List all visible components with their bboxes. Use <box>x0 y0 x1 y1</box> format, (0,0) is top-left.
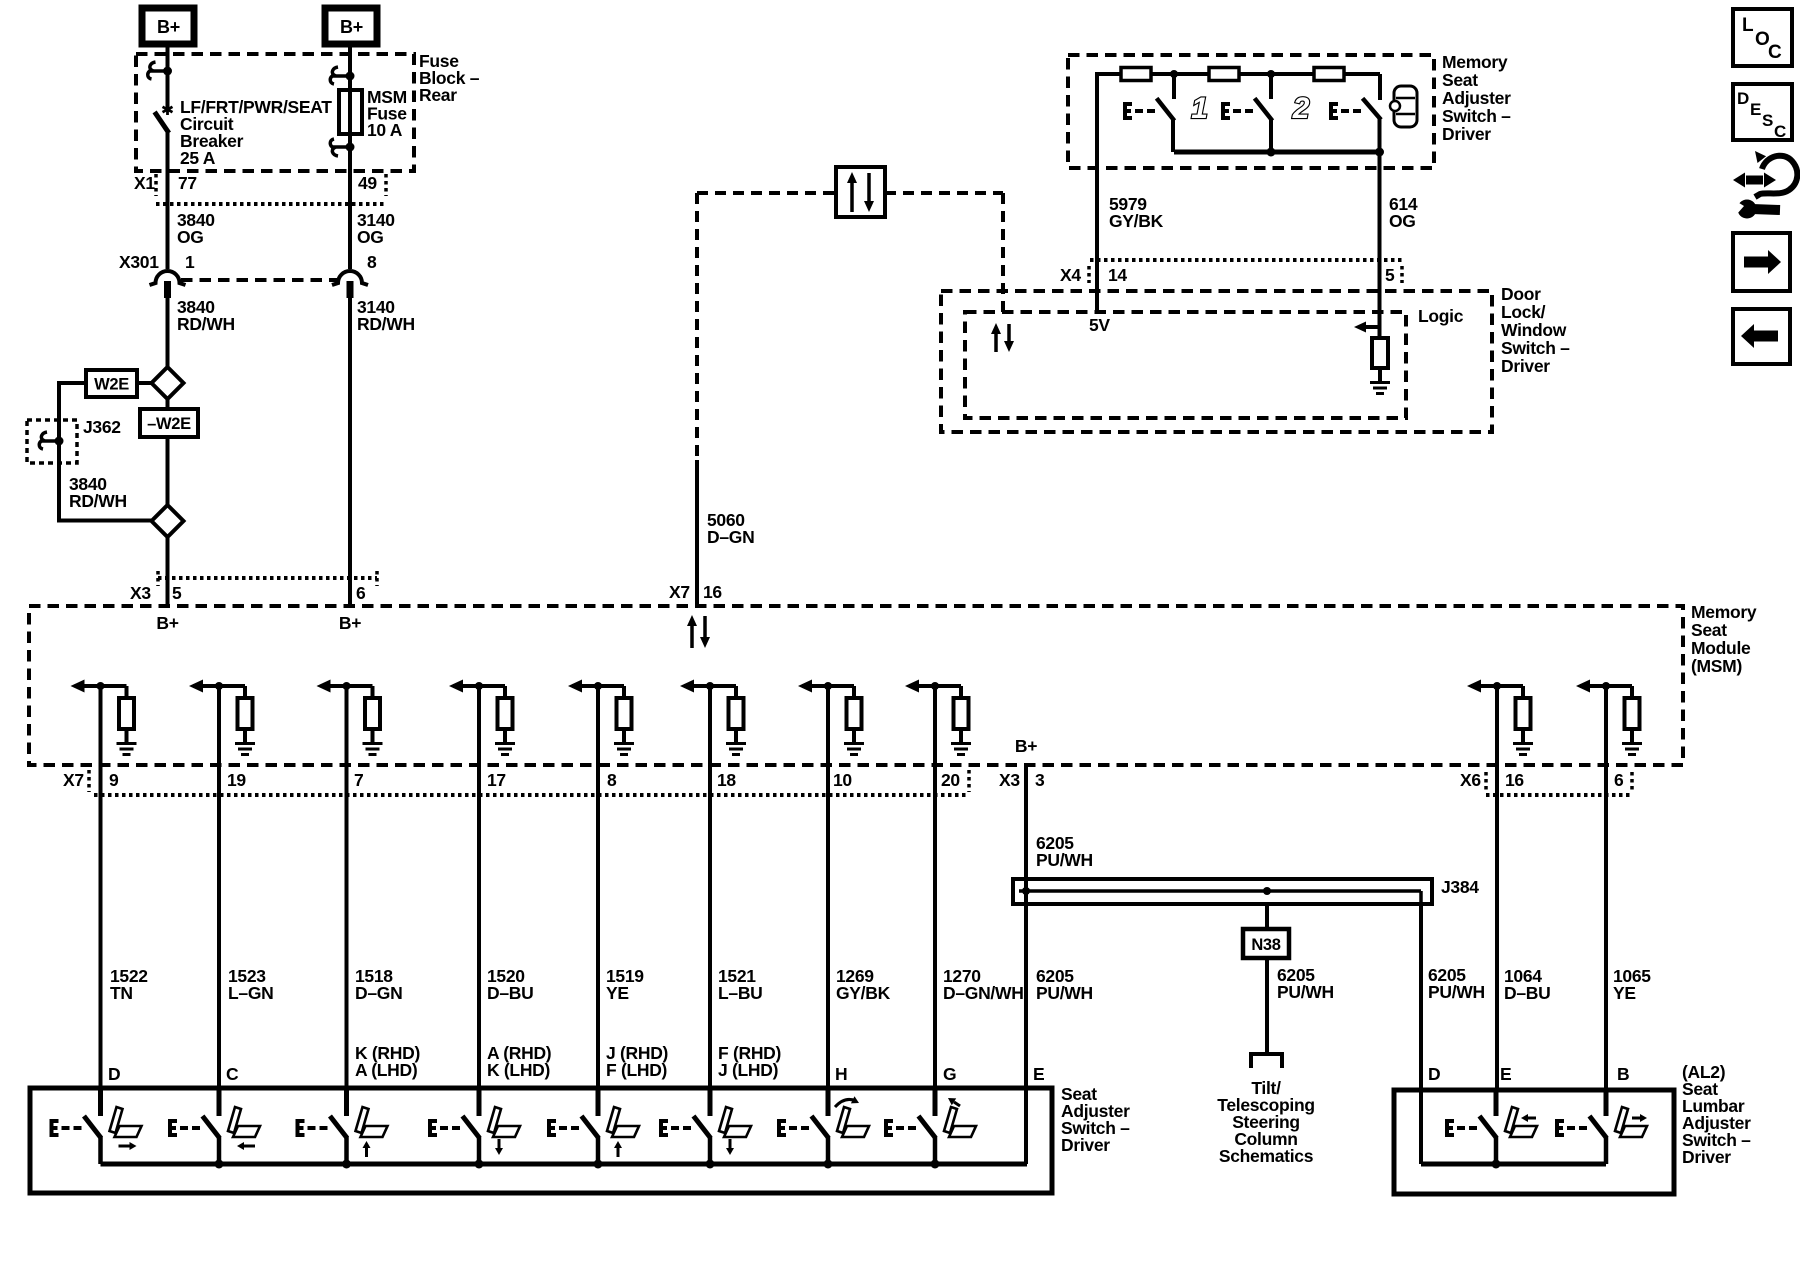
inline connector hook (fuse bottom) <box>331 145 350 149</box>
splice diamond (bottom) <box>152 505 184 537</box>
svg-text:X3: X3 <box>130 583 151 603</box>
svg-text:Switch –: Switch – <box>1442 106 1511 126</box>
svg-text:6: 6 <box>356 583 366 603</box>
seat switch unit 5 <box>596 1090 601 1116</box>
LOC nav icon <box>1733 9 1792 66</box>
svg-text:PU/WH: PU/WH <box>1036 850 1093 870</box>
MSM driver output, pin wire x=479 <box>453 684 505 688</box>
svg-text:D–GN: D–GN <box>707 527 754 547</box>
svg-text:F (LHD): F (LHD) <box>606 1060 667 1080</box>
updown arrows (logic in) <box>994 332 998 352</box>
svg-text:Schematics: Schematics <box>1219 1146 1314 1166</box>
memory switch 3 (set) <box>1329 102 1338 120</box>
MSM driver output, pin wire x=710 <box>684 684 736 688</box>
svg-text:6: 6 <box>1614 770 1624 790</box>
svg-text:D–BU: D–BU <box>1504 983 1550 1003</box>
seat switch unit 1 <box>98 1090 103 1116</box>
seat switch unit 4 <box>477 1090 482 1116</box>
inline connector hook (breaker top) <box>149 69 168 73</box>
svg-text:Module: Module <box>1691 638 1751 658</box>
svg-text:PU/WH: PU/WH <box>1277 982 1334 1002</box>
svg-text:W2E: W2E <box>94 376 129 394</box>
svg-text:PU/WH: PU/WH <box>1428 982 1485 1002</box>
svg-text:Driver: Driver <box>1442 124 1491 144</box>
dashed wire down-left <box>695 193 699 460</box>
svg-text:Logic: Logic <box>1418 306 1464 326</box>
svg-text:RD/WH: RD/WH <box>69 491 127 511</box>
svg-text:K (LHD): K (LHD) <box>487 1060 550 1080</box>
DESC nav icon <box>1733 84 1792 140</box>
Memory Seat Module (MSM) dashed box <box>29 606 1683 765</box>
right arrow nav icon <box>1733 233 1790 291</box>
svg-text:C: C <box>226 1064 239 1084</box>
svg-text:D–GN/WH: D–GN/WH <box>943 983 1024 1003</box>
svg-text:10 A: 10 A <box>367 120 403 140</box>
wire D inside lumbar <box>1419 1090 1423 1164</box>
MSM driver output, pin wire x=219 <box>193 684 245 688</box>
MSM Fuse 10 A <box>339 90 362 134</box>
wire from MSM pin <box>477 686 481 765</box>
ground (logic) <box>1370 381 1390 384</box>
connector X4 row <box>1090 258 1404 262</box>
car icon <box>1394 86 1417 127</box>
svg-text:D: D <box>108 1064 120 1084</box>
svg-text:G: G <box>943 1064 956 1084</box>
wire to N38 <box>1265 904 1269 929</box>
svg-text:A (LHD): A (LHD) <box>355 1060 417 1080</box>
svg-text:GY/BK: GY/BK <box>1109 211 1164 231</box>
updown arrows (MSM X7-16) <box>690 624 694 648</box>
wire MSM pin to seat switch x=828 <box>826 765 830 1090</box>
wire 6205 pin E to bus <box>1024 1090 1028 1164</box>
Seat Adjuster Switch - Driver box <box>30 1088 1052 1193</box>
svg-text:B: B <box>1617 1064 1629 1084</box>
svg-text:E: E <box>1750 100 1761 119</box>
lumbar switch 2 <box>1604 1090 1609 1116</box>
svg-text:TN: TN <box>110 983 133 1003</box>
svg-text:25 A: 25 A <box>180 148 216 168</box>
svg-text:8: 8 <box>367 252 377 272</box>
svg-text:7: 7 <box>354 770 363 790</box>
svg-text:19: 19 <box>227 770 246 790</box>
svg-text:X3: X3 <box>999 770 1020 790</box>
svg-text:(MSM): (MSM) <box>1691 656 1742 676</box>
wire X6-16 to lumbar E <box>1495 765 1499 1090</box>
svg-text:OG: OG <box>1389 211 1416 231</box>
wire 614 into switch <box>1378 168 1382 338</box>
svg-text:Seat: Seat <box>1442 70 1478 90</box>
seat switch unit 2 <box>217 1090 222 1116</box>
memory switch 2 <box>1221 102 1230 120</box>
svg-text:Window: Window <box>1501 320 1567 340</box>
dashed wire to door switch <box>697 191 836 195</box>
internal bus with resistors <box>1097 72 1121 76</box>
wire MSM pin to seat switch x=710 <box>708 765 712 1090</box>
svg-text:C: C <box>1768 42 1782 63</box>
Memory Seat Adjuster Switch - Driver dashed box <box>1068 55 1434 168</box>
wire W2E to diamond <box>137 381 152 385</box>
svg-text:H: H <box>835 1064 847 1084</box>
svg-text:Seat: Seat <box>1691 620 1727 640</box>
svg-text:77: 77 <box>178 173 197 193</box>
svg-text:Lock/: Lock/ <box>1501 302 1546 322</box>
wire from MSM pin <box>708 686 712 765</box>
svg-text:Switch –: Switch – <box>1501 338 1570 358</box>
svg-text:GY/BK: GY/BK <box>836 983 891 1003</box>
Fuse Block - Rear dashed box <box>136 54 414 171</box>
svg-text:L–GN: L–GN <box>228 983 273 1003</box>
svg-text:D–GN: D–GN <box>355 983 402 1003</box>
seat switch common bus <box>101 1162 1028 1167</box>
svg-text:X7: X7 <box>63 770 84 790</box>
svg-text:J384: J384 <box>1441 877 1479 897</box>
wire -W2E down <box>166 437 170 505</box>
svg-text:B+: B+ <box>157 17 180 37</box>
svg-text:Driver: Driver <box>1682 1147 1731 1167</box>
seat switch unit 7 <box>826 1090 831 1116</box>
B+ power symbol 1 <box>142 8 194 44</box>
wire 5979 into switch <box>1095 168 1099 312</box>
svg-text:Door: Door <box>1501 284 1541 304</box>
svg-text:RD/WH: RD/WH <box>357 314 415 334</box>
svg-text:16: 16 <box>703 582 722 602</box>
seat switch unit 3 <box>344 1090 349 1116</box>
logic inner dashed box <box>965 312 1406 418</box>
Seat Lumbar Adjuster Switch - Driver box <box>1394 1090 1674 1194</box>
wire to X3-5 <box>166 537 170 606</box>
inline connector hook (fuse top) <box>331 74 350 78</box>
svg-text:Driver: Driver <box>1061 1135 1110 1155</box>
lumbar switch 1 <box>1494 1090 1499 1116</box>
svg-text:3: 3 <box>1035 770 1045 790</box>
switch feed wire (left) <box>1095 72 1099 260</box>
connector X3 row (top of MSM) <box>158 576 377 580</box>
svg-text:PU/WH: PU/WH <box>1036 983 1093 1003</box>
svg-text:49: 49 <box>358 173 377 193</box>
MSM driver output, pin wire x=100.5 <box>75 684 127 688</box>
wire from MSM pin <box>933 686 937 765</box>
svg-text:10: 10 <box>833 770 852 790</box>
svg-text:5V: 5V <box>1089 315 1110 335</box>
connector N38 <box>1243 929 1289 958</box>
svg-text:OG: OG <box>357 227 384 247</box>
pull resistor <box>1372 338 1388 368</box>
svg-text:B+: B+ <box>339 613 361 633</box>
updown arrows box (page link) <box>836 167 885 217</box>
svg-text:1: 1 <box>185 252 195 272</box>
svg-text:–W2E: –W2E <box>147 415 191 433</box>
wire MSM pin to seat switch x=935 <box>933 765 937 1090</box>
MSM driver output, pin wire x=828 <box>802 684 854 688</box>
svg-text:20: 20 <box>941 770 960 790</box>
svg-text:L: L <box>1742 15 1754 36</box>
svg-text:C: C <box>1774 122 1786 141</box>
svg-text:D: D <box>1428 1064 1440 1084</box>
wire X6-6 to lumbar B <box>1604 765 1608 1090</box>
svg-text:9: 9 <box>109 770 119 790</box>
svg-text:YE: YE <box>1613 983 1636 1003</box>
wire 3840 RD/WH down to splice <box>166 298 170 368</box>
seat switch unit 6 <box>708 1090 713 1116</box>
svg-text:E: E <box>1500 1064 1511 1084</box>
svg-text:5: 5 <box>172 583 182 603</box>
W2E splice box <box>86 370 137 397</box>
left arrow nav icon <box>1733 309 1790 364</box>
seat switch unit 8 <box>933 1090 938 1116</box>
wire 6205 from X3-3 through J384 to pin E <box>1024 765 1028 1090</box>
svg-text:8: 8 <box>607 770 617 790</box>
circuit breaker star <box>166 104 169 115</box>
svg-text:D: D <box>1737 89 1749 108</box>
wire from MSM pin <box>596 686 600 765</box>
svg-text:Memory: Memory <box>1442 52 1508 72</box>
svg-text:X4: X4 <box>1060 265 1081 285</box>
svg-text:B+: B+ <box>1015 736 1037 756</box>
wire MSM pin to seat switch x=346.5 <box>345 765 349 1090</box>
svg-text:1: 1 <box>1191 92 1207 125</box>
svg-text:2: 2 <box>1292 92 1310 125</box>
svg-text:L–BU: L–BU <box>718 983 763 1003</box>
svg-text:14: 14 <box>1108 265 1127 285</box>
wire diamond to -W2E <box>166 399 170 409</box>
memory switch bottom bus <box>1174 150 1382 155</box>
svg-text:X1: X1 <box>134 173 155 193</box>
wire MSM pin to seat switch x=219 <box>217 765 221 1090</box>
svg-text:Driver: Driver <box>1501 356 1550 376</box>
wire MSM pin to seat switch x=598 <box>596 765 600 1090</box>
wire from MSM pin <box>826 686 830 765</box>
MSM driver output, pin wire x=1606 <box>1580 684 1632 688</box>
off-page bracket <box>1251 1054 1282 1068</box>
wire breaker to X1-77 <box>166 131 170 269</box>
wire MSM pin to seat switch x=100.5 <box>99 765 103 1090</box>
wire from B+ 2 <box>348 44 352 147</box>
wire from MSM pin <box>1495 686 1499 765</box>
svg-text:Rear: Rear <box>419 85 457 105</box>
B+ power symbol 2 <box>325 8 377 44</box>
svg-text:N38: N38 <box>1251 936 1280 954</box>
svg-text:S: S <box>1762 111 1773 130</box>
splice pack J384 <box>1013 879 1432 904</box>
svg-text:X7: X7 <box>669 582 690 602</box>
wire 3140 RD/WH to X3-6 <box>348 298 352 606</box>
svg-text:B+: B+ <box>340 17 363 37</box>
svg-text:J (LHD): J (LHD) <box>718 1060 778 1080</box>
svg-text:X301: X301 <box>119 252 159 272</box>
svg-text:18: 18 <box>717 770 736 790</box>
MSM driver output, pin wire x=346.5 <box>321 684 373 688</box>
wire MSM pin to seat switch x=479 <box>477 765 481 1090</box>
wire from B+ 1 <box>166 44 170 109</box>
wire from MSM pin <box>217 686 221 765</box>
wire 5060 D-GN <box>695 460 699 606</box>
wire J384 to lumbar D <box>1419 904 1423 1090</box>
MSM driver output, pin wire x=935 <box>909 684 961 688</box>
lumbar bus <box>1421 1162 1606 1167</box>
wire left branch of W2E <box>59 383 152 521</box>
svg-text:OG: OG <box>177 227 204 247</box>
svg-text:E: E <box>1033 1064 1044 1084</box>
svg-text:16: 16 <box>1505 770 1524 790</box>
MSM driver output, pin wire x=598 <box>572 684 624 688</box>
wrench/arrows nav icon <box>1746 176 1763 185</box>
svg-text:D–BU: D–BU <box>487 983 533 1003</box>
MSM driver output, pin wire x=1497 <box>1471 684 1523 688</box>
memory switch 1 <box>1123 102 1132 120</box>
Door Lock/Window Switch - Driver outer dashed box <box>941 291 1492 432</box>
wire from MSM pin <box>99 686 103 765</box>
wire fuse to X1-49 <box>348 147 352 269</box>
svg-text:YE: YE <box>606 983 629 1003</box>
svg-text:X6: X6 <box>1460 770 1481 790</box>
wire from MSM pin <box>1604 686 1608 765</box>
wire from MSM pin <box>345 686 349 765</box>
svg-text:J362: J362 <box>83 417 121 437</box>
svg-text:B+: B+ <box>156 613 178 633</box>
svg-text:Adjuster: Adjuster <box>1442 88 1511 108</box>
circuit breaker blade <box>156 114 168 131</box>
-W2E splice box <box>140 409 198 437</box>
inline connector J362 <box>27 420 77 463</box>
splice diamond W2E (top) <box>152 367 184 399</box>
arrow into logic <box>1364 325 1380 329</box>
svg-text:5: 5 <box>1385 265 1395 285</box>
svg-text:Memory: Memory <box>1691 602 1757 622</box>
svg-text:RD/WH: RD/WH <box>177 314 235 334</box>
svg-text:17: 17 <box>487 770 506 790</box>
